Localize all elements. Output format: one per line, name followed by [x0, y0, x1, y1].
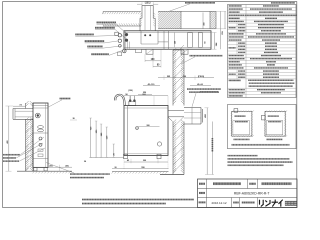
svg-text:45~130: 45~130: [148, 83, 156, 86]
svg-text:(120): (120): [128, 90, 133, 92]
svg-text:RBF-A80S2KD-RR-R-T: RBF-A80S2KD-RR-R-T: [234, 192, 270, 196]
svg-text:2016.12.12: 2016.12.12: [211, 201, 226, 205]
svg-text:45~60: 45~60: [197, 83, 204, 86]
svg-text:60: 60: [205, 41, 207, 43]
svg-text:140: 140: [174, 41, 177, 44]
svg-text:(151): (151): [145, 2, 151, 5]
svg-text:(PS20): (PS20): [198, 76, 205, 78]
svg-text:450: 450: [202, 22, 205, 25]
svg-text:38: 38: [72, 118, 74, 120]
